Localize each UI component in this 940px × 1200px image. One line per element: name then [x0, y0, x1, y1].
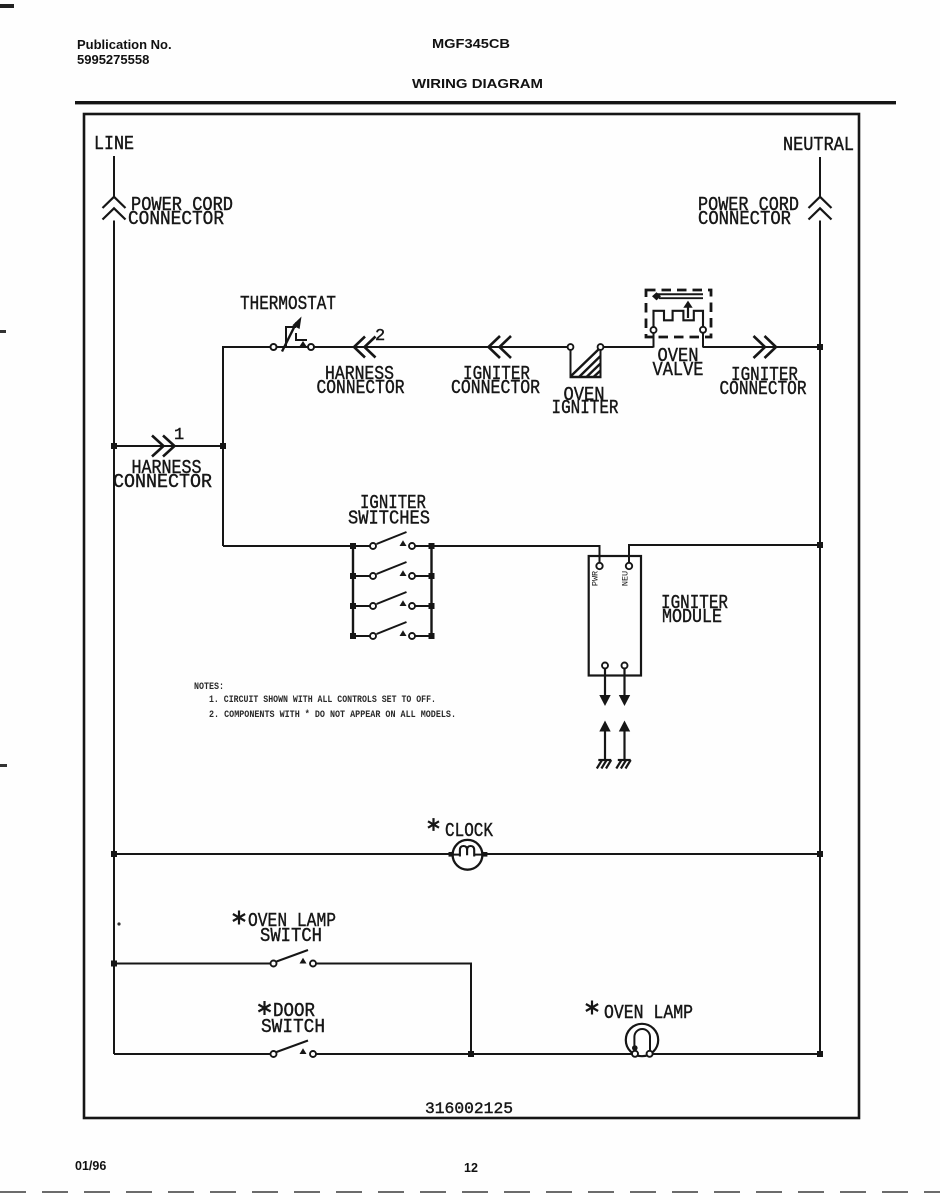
wire: switch row 1 left [223, 545, 371, 547]
wire: switch row 4 stubs [353, 635, 371, 637]
scan artifact: left edge tick mid [0, 330, 6, 333]
svg-text:CONNECTOR: CONNECTOR [720, 378, 807, 400]
wire: harness row from line rail [114, 445, 223, 447]
wire: electrode lead left [604, 731, 606, 761]
door switch label [258, 1001, 270, 1015]
spark arrow up right [619, 721, 630, 732]
igniter switch 1 [370, 532, 415, 549]
svg-text:SWITCH: SWITCH [261, 1016, 325, 1038]
junction: clock row at line rail [111, 851, 117, 857]
oven lamp switch label [233, 911, 245, 925]
wire: igniter switch right bus [430, 546, 432, 636]
power cord connector (line side) [103, 197, 126, 220]
igniter connector (right) [754, 336, 777, 358]
spark arrow down right [619, 695, 630, 706]
scan artifact: bottom dashed scanner line [0, 1191, 940, 1193]
igniter connector (mid) [489, 336, 512, 358]
junction: harness row at line rail [111, 443, 117, 449]
oven valve [646, 290, 711, 348]
wire: switch row 3 stubs [353, 605, 371, 607]
igniter switch 2 [370, 562, 415, 579]
svg-text:SWITCH: SWITCH [260, 925, 322, 947]
svg-text:MODULE: MODULE [662, 606, 722, 628]
junctions: switch bus right [429, 543, 435, 549]
spark arrow up left [599, 721, 610, 732]
wire: NEUTRAL rail upper segment [819, 157, 821, 197]
header rule [75, 101, 896, 104]
igniter switch 4 [370, 622, 415, 639]
svg-text:IGNITER: IGNITER [552, 397, 619, 419]
wire: electrode lead right [623, 731, 625, 761]
oven lamp label [586, 1001, 598, 1015]
wire: igniter switch left bus [352, 546, 354, 636]
ground (right electrode) [616, 760, 630, 769]
wire: clock row left [114, 853, 452, 855]
oven igniter [568, 344, 604, 377]
svg-text:12: 12 [464, 1161, 478, 1175]
igniter module U1 [589, 556, 641, 676]
svg-text:1. CIRCUIT SHOWN WITH ALL CONT: 1. CIRCUIT SHOWN WITH ALL CONTROLS SET T… [209, 694, 436, 706]
junction: NEU wire at neutral rail [817, 542, 823, 548]
junction: clock row at neutral rail [817, 851, 823, 857]
door switch S2 [271, 1041, 317, 1058]
wire: NEUTRAL rail main vertical [819, 221, 821, 1055]
svg-text:NOTES:: NOTES: [194, 681, 224, 693]
svg-text:CONNECTOR: CONNECTOR [317, 377, 405, 399]
scan artifact: left edge tick lower [0, 764, 7, 767]
harness connector 1 [152, 436, 175, 457]
thermostat [271, 317, 315, 352]
wire: door switch row left [114, 1053, 271, 1055]
svg-text:CONNECTOR: CONNECTOR [113, 471, 212, 493]
scan artifact: top-left edge tick [0, 4, 14, 8]
svg-text:OVEN LAMP: OVEN LAMP [604, 1002, 693, 1024]
svg-text:LINE: LINE [94, 133, 134, 155]
wire: clock row right [483, 853, 820, 855]
wire: igniter module NEU to neutral rail [629, 545, 820, 563]
junction: top wire to neutral rail [817, 344, 823, 350]
clock motor M1 [449, 840, 488, 870]
wire: spark output left [604, 669, 606, 696]
wire: switch row 1 right to igniter module [415, 546, 600, 563]
oven lamp switch S1 [271, 950, 317, 967]
svg-text:316002125: 316002125 [425, 1100, 513, 1118]
wire: top circuit left segment [223, 347, 568, 546]
wire: oven lamp switch row right with drop [316, 964, 471, 1055]
junction: harness row at thermostat branch [220, 443, 226, 449]
svg-text:2: 2 [375, 327, 385, 346]
svg-text:2. COMPONENTS WITH * DO NOT AP: 2. COMPONENTS WITH * DO NOT APPEAR ON AL… [209, 709, 456, 721]
power cord connector (neutral side) [809, 197, 832, 220]
oven lamp DS1 [626, 1024, 658, 1057]
svg-text:CONNECTOR: CONNECTOR [451, 377, 540, 399]
svg-text:1: 1 [174, 426, 184, 445]
svg-text:Publication No.: Publication No. [77, 37, 172, 52]
wire: LINE rail upper segment [113, 156, 115, 197]
wire: oven lamp switch row left [114, 963, 271, 965]
junction: door row at neutral rail [817, 1051, 823, 1057]
svg-text:CLOCK: CLOCK [445, 820, 493, 842]
svg-text:THERMOSTAT: THERMOSTAT [240, 293, 336, 315]
svg-text:CONNECTOR: CONNECTOR [128, 208, 224, 230]
harness connector 2 [354, 337, 376, 358]
svg-text:SWITCHES: SWITCHES [348, 508, 430, 530]
ground (left electrode) [597, 760, 611, 769]
scan artifact: stray dot [117, 922, 120, 925]
svg-text:01/96: 01/96 [75, 1159, 106, 1173]
wire: switch row 2 stubs [353, 575, 371, 577]
igniter switch 3 [370, 592, 415, 609]
svg-text:WIRING DIAGRAM: WIRING DIAGRAM [412, 76, 543, 91]
wire: igniter to oven valve [604, 346, 654, 348]
wire: spark output right [623, 669, 625, 696]
diagram border frame [84, 114, 859, 1118]
svg-text:CONNECTOR: CONNECTOR [698, 208, 791, 230]
clock label [428, 818, 439, 831]
svg-text:VALVE: VALVE [653, 359, 704, 381]
svg-text:5995275558: 5995275558 [77, 52, 149, 67]
svg-text:PWR: PWR [591, 571, 601, 586]
spark arrow down left [599, 695, 610, 706]
junctions: switch bus left [350, 543, 356, 549]
wire: oven valve to neutral rail [703, 346, 820, 348]
svg-text:NEU: NEU [621, 571, 631, 586]
wire: door switch row right [316, 1053, 820, 1055]
svg-text:MGF345CB: MGF345CB [432, 36, 510, 51]
junction: lamp switch row at line rail [111, 961, 117, 967]
junction: lamp drop at door row [468, 1051, 474, 1057]
wire: LINE rail main vertical [113, 221, 115, 1055]
svg-text:NEUTRAL: NEUTRAL [783, 134, 854, 156]
